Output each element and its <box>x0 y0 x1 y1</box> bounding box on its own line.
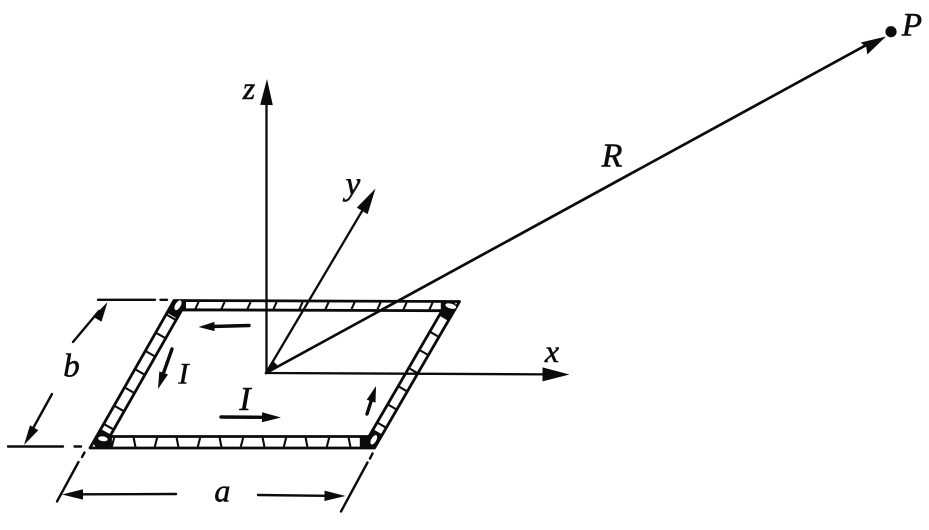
dimension b: upper arrow <box>73 302 108 342</box>
dimension a: left arrow <box>62 489 176 499</box>
ink blob at origin junction <box>266 361 278 373</box>
loop corner blob (top-right) <box>441 306 451 318</box>
loop conductor segment ticks <box>105 302 449 447</box>
z-axis <box>260 79 273 373</box>
dimension a: right slant extension (dash-dot) <box>370 454 373 459</box>
current arrow on top edge (pointing left) <box>199 322 250 331</box>
svg-text:P: P <box>901 8 922 44</box>
svg-text:R: R <box>601 138 623 175</box>
svg-text:x: x <box>544 333 559 369</box>
dimension b: bottom extension line (dash-dot) <box>8 445 63 447</box>
rectangular loop conductor: inner outline <box>110 310 442 437</box>
y-axis <box>266 189 376 374</box>
svg-text:y: y <box>343 167 361 203</box>
dimension a: right arrow <box>258 491 346 501</box>
rectangular loop conductor: outer outline <box>90 301 460 449</box>
dimension a: left slant extension (dash-dot) <box>82 453 85 458</box>
current arrow on bottom edge (pointing right) <box>221 412 281 422</box>
vector R from origin toward observation point <box>266 37 886 374</box>
svg-text:b: b <box>63 348 80 384</box>
dimension b: lower arrow <box>24 394 52 445</box>
loop corner blob (bottom-left) <box>100 432 112 442</box>
x-axis <box>266 367 570 381</box>
svg-text:a: a <box>214 472 230 508</box>
point P dot <box>885 26 896 37</box>
svg-text:z: z <box>242 70 256 106</box>
svg-text:I: I <box>238 381 252 418</box>
loop corner blob (top-left) <box>172 305 186 315</box>
loop corner blob (bottom-right) <box>360 432 378 442</box>
current arrow on right edge (pointing up) <box>367 386 376 414</box>
current arrow on left edge (pointing down) <box>158 349 172 389</box>
dimension b: top extension line (dash-dot) <box>98 299 155 301</box>
